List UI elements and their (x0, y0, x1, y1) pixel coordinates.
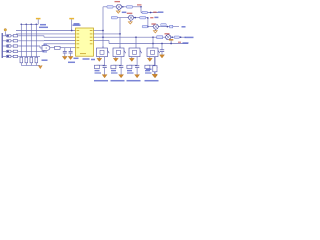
resistor R21 (20, 57, 23, 63)
wire FB3 to R13 (11, 45, 13, 47)
wire K2 lower (120, 57, 122, 66)
LED D4 (164, 35, 172, 40)
power arrow below D2 (128, 21, 132, 24)
capacitor C54 (153, 66, 157, 68)
wire row1 jog (43, 36, 45, 37)
junction k4 row4 tap (152, 36, 154, 38)
power port P2 rail (36, 19, 41, 25)
net label below D1 (122, 11, 127, 13)
junction ext1 (150, 12, 152, 14)
power port P4 right (169, 40, 173, 44)
wire K1 lower (104, 57, 106, 66)
buffer gate G1 (42, 46, 50, 51)
wire C1 drop (64, 48, 66, 52)
ground C54 (153, 75, 158, 78)
resistor R13 (13, 45, 17, 47)
designator G1 (43, 43, 47, 45)
wire net4 to U1 (44, 40, 76, 42)
wire C4 to gnd (161, 52, 163, 55)
wire riser 4 (35, 24, 37, 57)
value2 R52 (111, 72, 118, 74)
wire lower bus K4 (147, 64, 155, 66)
ferrite bead FB1 (6, 35, 11, 37)
net label below U1 (74, 57, 79, 59)
value R51 (95, 70, 100, 72)
wire riser LED3 (147, 18, 149, 27)
wire R3 to U1 (60, 47, 75, 49)
net label under C2 (68, 61, 75, 63)
net label P3 (74, 23, 80, 25)
wire C52 gnd (120, 68, 122, 75)
capacitor C53 (135, 66, 139, 68)
wire R21 to gnd bus (20, 63, 22, 66)
value R54 (145, 70, 150, 72)
net label rail (40, 24, 46, 26)
relay K4 body (147, 48, 160, 57)
resistor R53 (127, 65, 132, 68)
wire U1 out1 (94, 30, 104, 32)
wire K3 gnd (131, 57, 133, 59)
wire net3 to U1 (44, 36, 76, 38)
capacitor C52 (119, 66, 123, 68)
wire lower bus K3 (129, 64, 137, 66)
designator D3 (151, 23, 155, 25)
wire row3 jog (39, 46, 41, 48)
junction out1 cross (102, 36, 104, 38)
resistor R3 (55, 46, 61, 49)
junction rail 3 (30, 23, 32, 25)
wire K3 lower (136, 57, 138, 66)
junction row2 end (147, 17, 149, 19)
wire riser LED2 (119, 18, 121, 48)
junction row3 feed (147, 26, 149, 28)
ferrite bead FB4 (6, 50, 11, 52)
value2 R51 (95, 72, 102, 74)
resistor R22 (25, 57, 28, 63)
value R53 (127, 70, 132, 72)
resistor R52 (111, 65, 116, 68)
wire lower bus K2 (113, 64, 121, 66)
junction D3 out (167, 26, 169, 28)
wire C53 gnd (136, 68, 138, 75)
net label K4 (145, 80, 159, 82)
wire R24 to gnd bus (35, 63, 37, 66)
part number text (83, 58, 90, 60)
junction rail 4 (35, 23, 37, 25)
resistor R23 (30, 57, 33, 63)
wire C51 gnd (104, 68, 106, 75)
wire J1 pin 5 (2, 55, 6, 57)
wire J1 pin 2 (2, 40, 6, 42)
wire FB2 to R12 (11, 40, 13, 42)
wire gnd bus (21, 64, 40, 66)
junction D2 out (134, 17, 136, 19)
resistor R15 (13, 55, 17, 57)
net label row1 b (127, 6, 133, 9)
wire riser 2 (25, 24, 27, 57)
wire LED1 row (103, 6, 141, 8)
wire K4 gnd (149, 57, 151, 59)
wire row2 jog (43, 40, 45, 42)
wire R22 to gnd bus (25, 63, 27, 66)
net name row4 (185, 36, 194, 38)
power arrow below D1 (116, 10, 120, 13)
ground K4 (147, 58, 152, 61)
ground K3 (129, 58, 134, 61)
ground C2 (68, 56, 73, 59)
junction out1 (102, 30, 104, 32)
designator D4 (165, 33, 170, 35)
ground C52 (119, 75, 124, 78)
connector J1 body (1, 33, 3, 58)
junction power tap (170, 43, 172, 45)
resistor R12 (13, 40, 17, 42)
value R52 (111, 70, 116, 72)
wire U1 out3 long (94, 36, 187, 38)
resistor R11 (13, 35, 17, 37)
wire J1 pin 3 (2, 45, 6, 47)
wire J1 pin 4 (2, 50, 6, 52)
wire to G1 (40, 47, 42, 49)
resistor R51 (94, 65, 99, 68)
wire row1 (18, 35, 44, 37)
designator D2 (127, 12, 133, 14)
wire C2 drop (70, 48, 72, 52)
net name row3 (182, 26, 186, 28)
wire FB5 to R15 (11, 55, 13, 57)
ground C53 (135, 75, 140, 78)
wire row3 (18, 45, 40, 47)
wire feed K3 (135, 37, 137, 48)
wire K4 lower2 (154, 57, 156, 66)
net label K2 (111, 80, 125, 82)
wire out4 jog (108, 41, 110, 44)
power arrow below D3 (153, 30, 157, 33)
net label R6 (146, 68, 152, 70)
junction rail 1 (20, 23, 22, 25)
junction row4 end (180, 36, 182, 38)
resistor R7 on row3 (170, 25, 173, 28)
wire row4 (18, 50, 44, 52)
net label row3 a (142, 25, 147, 27)
ground K2 (113, 58, 118, 61)
net label row1 a (107, 6, 113, 9)
designator D1 (115, 1, 121, 3)
junction row1 end (140, 6, 142, 8)
wire U1 out2 (94, 33, 121, 35)
wire row1 ext (141, 12, 158, 14)
wire row5 (18, 55, 40, 57)
wire lower bus K1 (97, 64, 105, 66)
wire K4 lower (154, 57, 156, 66)
wire R23 to gnd bus (30, 63, 32, 66)
wire out4 long (109, 43, 188, 45)
relay K1 body (97, 48, 110, 57)
wire row4 jog (43, 44, 45, 52)
IC U1 body (76, 28, 94, 56)
wire FB1 to R11 (11, 35, 13, 37)
wire LED3 row (142, 26, 179, 28)
junction D1 out (122, 6, 124, 8)
junction P3 net (71, 30, 73, 32)
wire riser LED1 (102, 7, 104, 48)
value2 R54 (145, 72, 152, 74)
tick out4 (178, 41, 181, 43)
net label K3 (127, 80, 141, 82)
LED D3 (152, 24, 160, 29)
ground arrow left (38, 65, 42, 68)
wire C4 drop (161, 44, 163, 50)
wire feed K2 (119, 46, 121, 48)
junction k4 tap (152, 43, 154, 45)
wire net1 to U1 (16, 30, 76, 32)
wire FB4 to R14 (11, 50, 13, 52)
junction feed K3 (135, 36, 137, 38)
net name row2 (154, 16, 158, 18)
net label row3 b (161, 24, 166, 26)
value G1 (43, 51, 48, 53)
ferrite bead FB3 (6, 45, 11, 47)
power port P1 left (4, 29, 7, 36)
ground C4 (160, 55, 165, 58)
wire feed K4 (152, 37, 154, 48)
relay K3 body (129, 48, 142, 57)
junction D4 out (171, 36, 173, 38)
wire row1 jog down (140, 7, 142, 13)
wire K2 gnd (115, 57, 117, 59)
wire row2 (18, 40, 44, 42)
wire riser 3 (30, 24, 32, 57)
net label row2 b (140, 16, 146, 19)
net label above nets (39, 26, 48, 28)
wire U1 out4 (94, 40, 110, 42)
resistor R54 (145, 65, 150, 68)
ground C1 (62, 56, 67, 59)
net label ext1 (142, 11, 147, 13)
wire R6 gnd (154, 72, 156, 74)
wire G1 to R3 (50, 47, 55, 49)
capacitor C1 (63, 51, 67, 56)
wire LED2 row (111, 17, 148, 19)
net label left of K1 (91, 59, 95, 61)
resistor R24 (35, 57, 38, 63)
wire C54 gnd (154, 68, 156, 75)
tick row2 (150, 17, 153, 19)
net name row1 (137, 4, 142, 6)
wire feed K1 (102, 46, 104, 48)
relay K2 body (113, 48, 126, 57)
resistor R4 (157, 36, 163, 39)
junction out2 (119, 33, 121, 35)
wire K1 gnd (98, 57, 100, 59)
wire riser 1 (20, 24, 22, 57)
net label row4 b (174, 36, 179, 38)
ground K1 (97, 58, 102, 61)
ground R6 (152, 74, 157, 77)
power port P3 above U1 (69, 19, 74, 31)
net label row2 a (111, 16, 117, 19)
capacitor C4 (160, 50, 164, 52)
capacitor C2 (69, 51, 73, 56)
ferrite bead FB2 (6, 40, 11, 42)
net name ext1 (158, 11, 164, 13)
wire J1 pin 1 (2, 35, 6, 37)
net name out4 (183, 42, 189, 44)
net label K1 (94, 80, 108, 82)
tick ext1 (153, 11, 156, 13)
LED D1 (115, 4, 123, 9)
IC U1 pin names (77, 31, 93, 54)
resistor R6 (153, 66, 157, 72)
ferrite bead FB5 (6, 55, 11, 57)
wire net5 to U1 (44, 43, 76, 45)
ground C51 (102, 75, 107, 78)
junction c4 tap (161, 43, 163, 45)
capacitor C51 (103, 66, 107, 68)
LED D2 (127, 15, 135, 20)
wire net2 to U1 (16, 33, 76, 35)
value2 R53 (127, 72, 134, 74)
wire rail (21, 23, 38, 25)
junction rail 2 (25, 23, 27, 25)
resistor R14 (13, 50, 17, 52)
designator U1 (73, 24, 81, 26)
net label bank (42, 59, 48, 61)
